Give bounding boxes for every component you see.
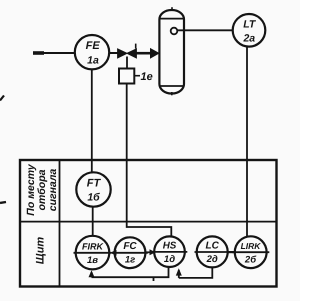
svg-text:LIRK: LIRK [241,241,262,251]
svg-text:LC: LC [206,241,220,252]
arrow FC to HS [145,249,155,255]
flow element FE 1a [75,35,109,69]
svg-text:FIRK: FIRK [82,241,104,251]
wire FE to valve [109,52,119,54]
wire LC down and over to HS with arrow [176,267,213,278]
svg-text:1б: 1б [87,192,100,204]
panel table frame [20,160,277,287]
svg-text:1а: 1а [87,55,99,67]
svg-text:2б: 2б [244,254,257,265]
flow transmitter FT 1b [76,172,110,206]
node LC-LIRK touch mark [228,251,234,253]
svg-text:FE: FE [86,40,101,52]
wire bottom line HS to FIRK with arrow [89,267,169,281]
recorder FIRK 1v [74,236,112,270]
svg-text:HS: HS [163,240,177,251]
wire FT down to FIRK [92,207,94,237]
svg-text:2а: 2а [242,33,255,45]
svg-text:Щит: Щит [35,237,47,265]
level transmitter LT 2a [233,14,266,47]
tick mark left edge upper [0,96,4,101]
nozzle on vessel [171,28,178,35]
wire LT down to LIRK [246,47,248,237]
svg-text:сигнала: сигнала [47,169,59,212]
controller FC 1g [113,237,148,268]
hand switch HS 1d [152,236,188,267]
positioner square 1e [119,69,153,84]
arrow into vessel [136,48,159,59]
valve stem to positioner [126,57,128,69]
control valve [118,44,137,58]
svg-text:LT: LT [243,19,257,31]
svg-text:2д: 2д [206,254,218,265]
svg-text:FC: FC [123,241,137,252]
wire positioner down and over to HS [127,84,172,237]
svg-text:1в: 1в [87,255,98,266]
recorder LIRK 2b [232,236,269,268]
svg-text:FT: FT [87,178,102,190]
level controller LC 2d [195,236,231,267]
arrow FC to FIRK [110,250,116,256]
tick mark left edge lower [0,202,6,203]
svg-text:1е: 1е [141,71,153,83]
svg-text:1г: 1г [125,255,135,266]
svg-text:1д: 1д [164,254,175,265]
row label: po mestu otbora signala [25,163,59,216]
wire nozzle to LT [177,29,233,31]
wire FE down to FT [91,69,93,172]
wire inlet line to FE [33,52,75,54]
vessel (separator drum) [159,7,184,95]
